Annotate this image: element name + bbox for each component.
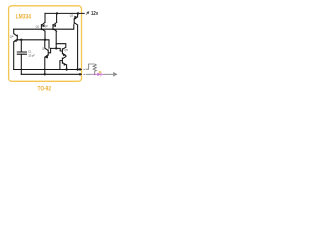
svg-text:Q6: Q6 [42,47,46,51]
svg-text:15 pF: 15 pF [28,53,35,57]
transistor Q2 (PNP mirror right) [53,22,57,48]
wire T2 emitter drop [44,13,46,22]
wire after diode [105,73,114,75]
svg-text:Q5: Q5 [64,48,68,52]
node dot top rail 2 [77,12,79,14]
svg-text:Q3: Q3 [70,13,74,17]
svg-text:LM334: LM334 [16,14,32,21]
node dot rail B pin [79,73,81,75]
reference labels [10,13,74,57]
svg-text:Q1: Q1 [36,24,40,28]
svg-text:C1: C1 [28,50,32,54]
capacitor C1 plates [17,52,26,54]
arrow Q6 [45,56,48,59]
svg-text:Q2: Q2 [44,24,48,28]
wire T3 emitter drop [56,13,58,22]
transistor emitter arrows [14,16,77,66]
supply polarity arrow [86,12,89,15]
svg-text:12v: 12v [91,11,99,17]
node dot rail A 2 [76,68,78,70]
wire V- pin to load [86,73,92,75]
transistor Q6 (mid NPN) [45,40,51,75]
node dot C2 [44,39,46,41]
capacitor C1 lead top [20,40,22,52]
wire rail B (V- pin bus) [21,73,81,75]
junction dots [20,12,81,75]
arrow Q2 [53,24,56,27]
capacitor C1 lead bottom [20,54,22,74]
node dot C1 [20,39,22,41]
arrow Q7 [63,63,66,66]
svg-text:Q4: Q4 [10,35,14,39]
node dot rail A 1 [65,68,67,70]
transistor Q5 (diode-connected NPN) [56,44,66,57]
node dot Rset bottom [94,73,96,75]
resistor Rset zigzag [93,64,96,74]
node dot rail B 1 [44,73,46,75]
transistor Q3 (top right PNP) [74,13,77,69]
external wiring (gray) [86,64,114,74]
diode D1 (magenta) [92,72,105,76]
svg-text:TO-92: TO-92 [38,86,52,93]
transistor Q4 (left NPN) [14,29,18,69]
node dot D [55,47,57,49]
node dot top rail 1 [56,12,58,14]
wire node D [51,48,63,51]
transistor Q1 (PNP mirror left) [41,22,45,39]
wire R pin to Rset [86,64,95,69]
node dot rail A pin [79,68,81,70]
pin V- marker [84,74,85,75]
wire base rail node B [14,25,74,30]
pin R marker [84,69,85,70]
wire node C (middle) [17,40,49,48]
transistor Q7 (output NPN) [60,57,67,70]
arrow Q4 [14,39,17,42]
arrow Q5 [63,53,66,56]
arrow Q1 [42,24,45,27]
wire V+ top rail [45,12,84,14]
wire rail A (R pin bus) [14,69,82,71]
current arrow [113,72,117,77]
arrow Q3 [74,16,77,19]
highlight speck on diode [99,71,101,73]
IC boundary box LM334 (TO-92 package outline) [9,6,82,82]
